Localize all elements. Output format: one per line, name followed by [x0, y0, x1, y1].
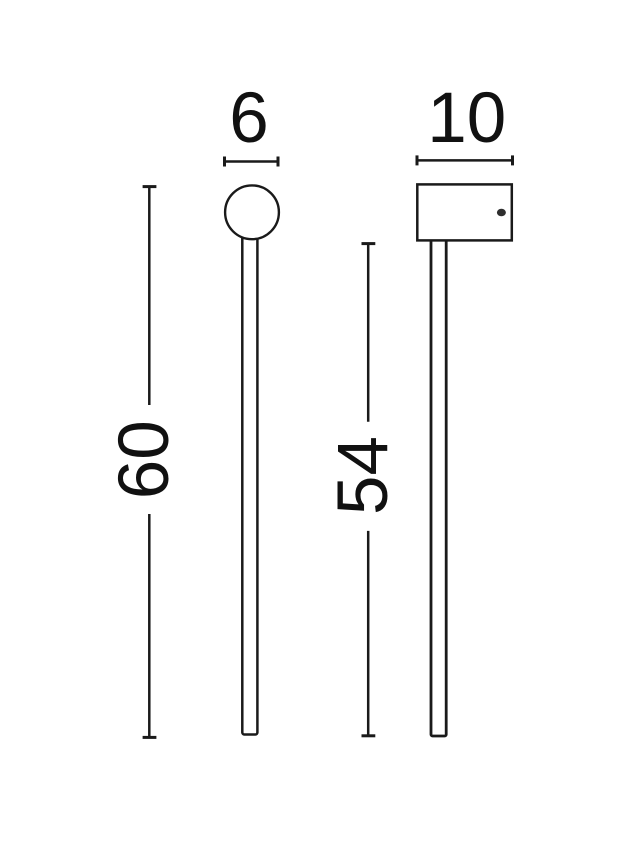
- svg-text:54: 54: [324, 436, 403, 515]
- screw dot: [497, 209, 506, 217]
- tick bottom of 60 line: [143, 736, 157, 739]
- tick right of 6 line: [277, 157, 280, 167]
- dimension line 10: [417, 159, 513, 162]
- dimension line 54 lower segment: [367, 531, 370, 736]
- svg-text:6: 6: [229, 79, 269, 158]
- mounting box: [417, 184, 512, 240]
- tick top of 54 line: [362, 242, 376, 245]
- tick right of 10 line: [511, 155, 514, 165]
- tick bottom of 54 line: [362, 734, 376, 737]
- dimension line 60 upper segment: [148, 187, 151, 405]
- dimension line 60 lower segment: [148, 514, 151, 737]
- svg-text:60: 60: [105, 420, 184, 499]
- front bar: [242, 230, 257, 735]
- dimension line 54 upper segment: [367, 244, 370, 422]
- dimension line 6: [225, 160, 279, 163]
- svg-text:10: 10: [427, 79, 506, 158]
- tick left of 6 line: [223, 157, 226, 167]
- side bar: [431, 240, 446, 736]
- tick top of 60 line: [143, 185, 157, 188]
- lamp head circle: [225, 185, 279, 239]
- tick left of 10 line: [416, 155, 419, 165]
